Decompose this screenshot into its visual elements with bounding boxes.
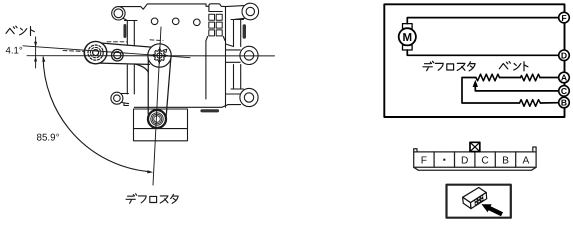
wire A with resistors: [540, 77, 559, 79]
pivot spline: [153, 49, 167, 62]
svg-text:C: C: [481, 155, 488, 166]
bar bottom tray: [414, 167, 536, 170]
left knurled pin: [84, 41, 106, 63]
wire to B: [540, 102, 558, 104]
resistor defroster track: [476, 74, 500, 81]
ear top-left: [112, 7, 125, 20]
body right edge: [225, 7, 227, 108]
bar top-right tab: [533, 147, 536, 152]
wire motor to F: [407, 18, 558, 24]
defroster position line: [153, 27, 161, 185]
cell dividers: [434, 152, 516, 167]
connector pin grid: [475, 195, 483, 205]
connector grid taper: [206, 37, 225, 41]
svg-text:A: A: [523, 155, 530, 166]
center line horizontal: [27, 55, 275, 57]
resistor B: [520, 100, 541, 107]
connector hood: [209, 4, 226, 12]
terminal B: [559, 97, 570, 108]
body bottom edge: [134, 105, 228, 108]
svg-text:C: C: [561, 86, 567, 96]
ear top-right: [242, 3, 259, 20]
wire: [500, 77, 521, 79]
terminal C: [559, 86, 570, 97]
svg-text:85.9°: 85.9°: [37, 133, 60, 144]
vent position line: [23, 46, 190, 58]
circuit box: [384, 4, 564, 117]
terminal A: [559, 72, 570, 83]
arc arrow bottom: [147, 170, 153, 173]
dimension 4.1 extension line: [35, 37, 37, 68]
svg-text:B: B: [502, 155, 509, 166]
left flange verticals: [125, 21, 138, 95]
pointer arrow: [482, 204, 504, 216]
output boss right: [240, 46, 258, 64]
terminal D: [559, 50, 570, 61]
arm fillet to down arm: [135, 64, 148, 72]
motor M: [399, 24, 416, 50]
arc arrow top: [42, 56, 45, 62]
bar top-left tab: [414, 149, 417, 152]
washer ring: [112, 49, 124, 61]
keying box with X: [470, 142, 480, 151]
right flange dark tab: [243, 26, 246, 37]
connector housing vertical: [205, 41, 207, 99]
resistor vent: [520, 74, 540, 81]
illustration box: [447, 185, 511, 218]
servo body outline top edge: [120, 4, 209, 9]
svg-text:D: D: [561, 51, 567, 61]
svg-text:F: F: [561, 13, 566, 23]
terminal F: [559, 12, 570, 23]
connector grid squares: [209, 14, 222, 36]
label defroster (katakana, bottom): [126, 194, 178, 204]
lever down arm: [148, 58, 171, 128]
svg-text:D: D: [461, 155, 468, 166]
connector 3d body: [463, 188, 487, 209]
small hole circles on body: [151, 18, 158, 25]
defroster pin: [148, 110, 166, 128]
vent arm outline: [84, 42, 91, 63]
ear bottom-left: [111, 92, 123, 104]
pin dot: [443, 159, 445, 161]
pivot hub: [148, 44, 171, 67]
svg-text:F: F: [421, 155, 427, 166]
lever vent arm: [63, 40, 163, 72]
right flange verticals: [231, 20, 244, 90]
wiper arrow: [473, 80, 478, 87]
wire to left drop: [462, 78, 520, 104]
pinout bar outline: [414, 152, 536, 167]
bottom dark tab: [202, 109, 218, 112]
label vent (circuit): [499, 62, 528, 71]
hidden dash lines: [63, 40, 163, 52]
down arm outline: [148, 58, 171, 116]
wire motor to D: [407, 50, 558, 55]
angle arc 85.9: [43, 57, 147, 171]
dimension arrow up: [34, 56, 37, 62]
svg-text:M: M: [403, 32, 413, 44]
svg-text:B: B: [561, 98, 567, 108]
svg-text:4.1°: 4.1°: [6, 46, 23, 57]
ear bottom-right: [240, 88, 258, 106]
bottom bracket: [134, 109, 188, 141]
dimension arrow down: [34, 42, 37, 48]
svg-text:A: A: [561, 73, 567, 83]
boss lug lines: [226, 44, 241, 62]
left flange dark tab: [123, 26, 126, 37]
label vent (katakana): [6, 26, 34, 35]
label defroster (circuit): [423, 61, 475, 71]
pivot crosshair: [152, 48, 168, 64]
